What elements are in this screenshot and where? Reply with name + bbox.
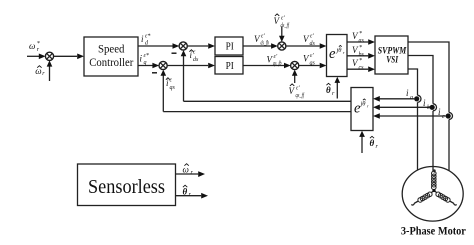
svg-text:jθ: jθ [360,101,367,108]
wire: d-axis current feedback from e^(-j theta) block to d junction [184,100,352,102]
wire: PI2 output to q feedforward junction [243,63,291,69]
wire: phase b line from SVPWM down to motor [408,56,437,168]
svg-text:jθ: jθ [336,47,343,54]
motor: phase A winding (top vertical coil) [432,167,437,191]
svg-text:*: * [359,31,362,37]
label V_ds_ff hat ^(e') [274,14,290,29]
svg-text:θ: θ [183,186,188,196]
wire: i_c measurement into e^(-j theta) block [373,113,446,119]
wire: d feedforward voltage into junction from above [279,27,285,43]
svg-text:PI: PI [226,40,234,52]
wire: V_qs to rotation block [299,63,327,69]
wire: estimated speed output of sensorless block [176,171,206,177]
svg-text:Sensorless: Sensorless [88,177,165,198]
label minus sign at q junction [152,72,157,74]
svg-text:qs: qs [310,61,316,67]
svg-text:a: a [410,95,413,101]
svg-text:r: r [343,50,345,55]
node: speed summing junction [45,52,53,60]
svg-text:bs: bs [359,52,365,58]
svg-text:ds: ds [310,41,316,47]
label omega_r hat (estimated speed) [35,66,45,78]
label i_c [438,107,445,120]
svg-text:b: b [427,105,430,111]
label i_d^(e*) [141,34,150,47]
svg-text:c: c [442,114,445,120]
label i_q^(e*) [140,53,149,66]
wire: q-axis current feedback from e^(-j theta) block to q junction [163,111,351,113]
svg-text:*: * [359,58,362,64]
label V_qs_ff hat ^(e') [289,84,305,99]
label i_qs hat (q current feedback) [166,78,176,92]
motor: phase B winding (lower-left coil) [411,191,434,206]
svg-text:PI: PI [226,60,234,72]
label V_qs^(e') [303,53,316,67]
svg-text:ε*: ε* [144,53,149,59]
svg-text:θ: θ [326,85,331,95]
svg-text:r: r [367,103,369,108]
label V_ds_fb^(e') [254,34,269,47]
label theta_r hat output [183,185,192,198]
wire: V_bs to SVPWM [347,53,375,59]
node: d-axis current summing junction [179,42,187,50]
svg-text:ds_fb: ds_fb [261,40,270,47]
wire: PI1 output to feedforward junction [243,43,278,49]
wire: i_a measurement into e^(-j theta) block [373,96,414,102]
svg-text:ω: ω [35,66,41,76]
node: phase a current sensor dot [414,96,419,101]
wire: d current error to PI1 [187,43,215,49]
node: phase b current sensor dot [430,105,435,110]
label V_ds^(e') [303,34,316,48]
block: Sensorless estimator [78,164,176,206]
block: PI controller q-axis [215,57,243,75]
node: q-axis feedforward summing junction [291,61,299,69]
node: d-axis feedforward summing junction [278,42,286,50]
label omega_r^* (speed reference) [29,41,40,53]
label V_cs^* [352,58,364,71]
svg-text:Speed: Speed [98,44,125,56]
svg-text:ds: ds [193,57,199,63]
wire: i_q reference to q-axis current junction [138,63,159,69]
svg-text:ω: ω [183,164,189,174]
svg-text:as: as [359,38,365,44]
wire: q-axis current feedback vertical into junction [161,70,167,112]
node: phase c current sensor dot [446,113,451,118]
wire: q current error to PI2 [167,63,215,69]
block: e^(j theta_r hat) rotation (dq to abc) [327,35,348,77]
wire: estimated angle output of sensorless block [176,193,209,199]
wire: phase c line from SVPWM down to motor [408,42,453,171]
label V_as^* [352,31,365,44]
block: SVPWM VSI [375,36,408,74]
svg-text:ds_ff: ds_ff [281,22,290,29]
svg-text:cs: cs [359,65,365,71]
block: Speed Controller [84,37,138,76]
label theta_r hat at abc-dq block [370,136,379,150]
svg-text:qs_ff: qs_ff [296,92,305,99]
svg-text:VSI: VSI [386,55,398,65]
svg-text:θ: θ [370,138,375,148]
motor: stator circle [402,167,463,222]
label i_a [406,88,413,101]
svg-text:e: e [329,46,336,62]
svg-text:qs_fb: qs_fb [273,60,282,67]
wire: i_b measurement into e^(-j theta) block [373,105,430,111]
wire: phase a line from SVPWM down to motor [408,69,421,170]
block: PI controller d-axis [215,37,243,55]
wire: d-axis current feedback vertical into junction [181,50,187,101]
svg-text:q: q [144,60,147,66]
wire: q feedforward voltage into junction from below [292,70,298,83]
label theta_r hat (rotor angle) [326,83,335,97]
label minus sign at d junction [172,52,177,54]
svg-text:3-Phase Motor: 3-Phase Motor [401,226,466,238]
wire: estimated speed feedback into speed junction [47,60,53,81]
wire: theta_r hat into e^(j theta) block [335,77,341,99]
node: q-axis current summing junction [159,61,167,69]
motor: neutral point dot [432,189,435,192]
svg-text:*: * [359,45,362,51]
label V_qs_fb^(e') [267,54,282,67]
svg-text:ε*: ε* [145,34,150,40]
wire: V_ds to rotation block [286,43,327,49]
label omega_r hat output [183,164,194,176]
block: e^(-j theta_r hat) rotation (abc to dq) [351,88,373,131]
wire: V_as to SVPWM [347,39,375,45]
wire: V_cs to SVPWM [347,66,375,72]
label V_bs^* [352,45,365,58]
svg-text:ω: ω [29,41,35,51]
wire: theta_r hat into e^(-j theta) block [359,131,365,153]
motor: phase C winding (lower-right coil) [434,191,457,206]
wire: speed reference input [27,54,46,60]
label i_b [423,98,430,111]
label i_ds hat (d current feedback) [189,50,199,64]
wire: i_d reference to d-axis current junction [138,43,179,49]
svg-text:qs: qs [170,85,176,91]
wire: speed error to speed controller [53,54,84,60]
svg-text:Controller: Controller [89,57,133,69]
